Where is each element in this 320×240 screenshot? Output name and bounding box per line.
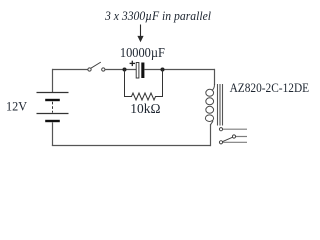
relay core	[218, 84, 223, 126]
battery BT1 12V	[37, 93, 69, 122]
svg-text:10000µF: 10000µF	[120, 45, 165, 60]
contact circles and armature	[219, 128, 235, 144]
resistor R1 10k with legs	[125, 70, 163, 101]
switch S1	[88, 62, 105, 71]
annotation arrow	[137, 25, 143, 43]
right rail bottom wire	[210, 124, 212, 146]
node junction left	[123, 68, 127, 72]
left rail lower wire	[52, 122, 54, 146]
node junction right	[161, 68, 165, 72]
right rail top wire	[214, 69, 216, 85]
svg-text:10kΩ: 10kΩ	[130, 101, 160, 116]
svg-text:3 x 3300µF in parallel: 3 x 3300µF in parallel	[104, 9, 212, 23]
wire switch to capacitor	[105, 69, 136, 71]
left rail upper wire	[52, 69, 54, 92]
relay contact terminal lines	[223, 129, 247, 142]
svg-text:AZ820-2C-12DE: AZ820-2C-12DE	[230, 80, 310, 95]
wire top-left from left rail to switch	[52, 69, 88, 71]
capacitor C1 polarized, plus sign	[130, 61, 145, 78]
svg-text:12V: 12V	[6, 99, 28, 114]
wire capacitor to right rail	[144, 69, 215, 71]
bottom wire	[52, 145, 211, 147]
relay coil L1	[205, 84, 214, 126]
